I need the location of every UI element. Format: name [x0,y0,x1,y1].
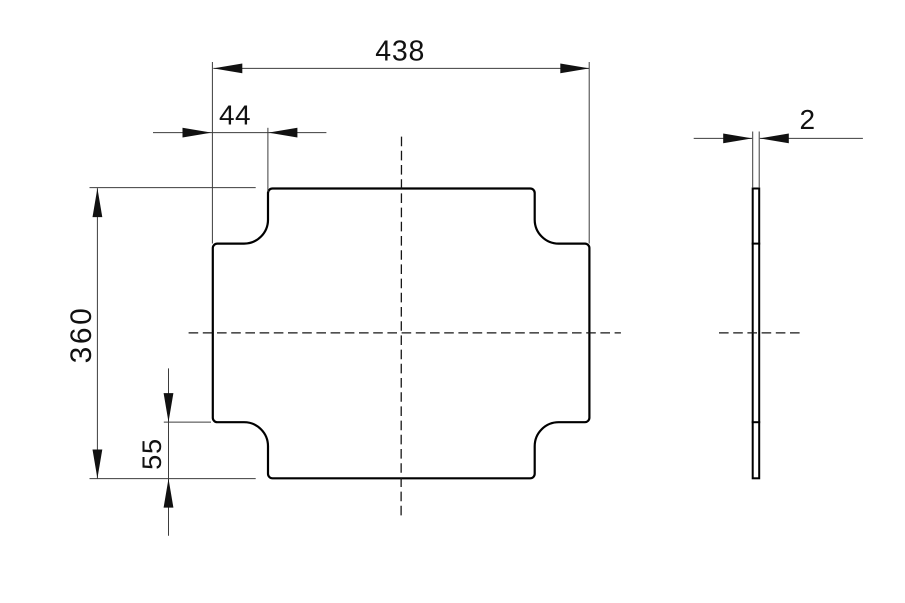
svg-text:438: 438 [375,35,425,67]
svg-text:44: 44 [219,100,251,131]
svg-text:360: 360 [65,306,98,364]
svg-text:55: 55 [136,438,167,470]
svg-text:2: 2 [800,104,816,135]
